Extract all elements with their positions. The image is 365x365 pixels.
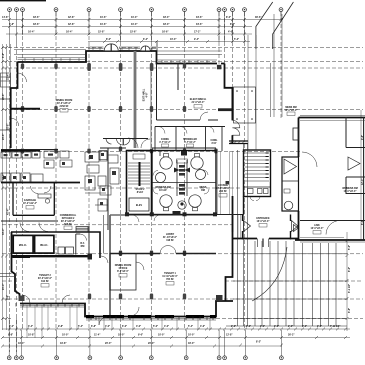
deck horizontal joints solid	[233, 254, 347, 319]
bottom wall piers	[86, 315, 216, 318]
columns row1 y66	[21, 63, 186, 71]
svg-text:4'-0": 4'-0"	[136, 325, 141, 328]
door arc elect room	[200, 112, 208, 120]
svg-text:5'-4": 5'-4"	[188, 325, 193, 328]
svg-text:2158 SF: 2158 SF	[59, 105, 69, 108]
svg-text:41'-4": 41'-4"	[7, 209, 10, 216]
kitchen island rects center	[85, 152, 119, 190]
svg-text:19'-8": 19'-8"	[60, 342, 67, 345]
corridor wall below garbage	[1, 220, 58, 222]
svg-text:W.I.C.: W.I.C.	[19, 243, 27, 247]
svg-text:10'-0": 10'-0"	[118, 334, 125, 337]
kitchen: west equipment band2	[1, 173, 43, 182]
room label: EXIT HALL	[143, 88, 149, 101]
svg-text:21'-4": 21'-4"	[2, 284, 5, 291]
corner column box top-right	[217, 65, 222, 70]
labels above core: COMM SPRINKLER	[159, 138, 218, 145]
room label: DINING ROOM OFFICE	[110, 254, 136, 291]
dark column at lobby wall	[88, 254, 93, 260]
core: restroom block outline	[152, 151, 216, 215]
svg-text:2'-6": 2'-6"	[317, 325, 322, 328]
link band hatched wall	[229, 141, 248, 144]
lounge deck lines	[217, 151, 240, 239]
top edge border remnant	[0, 0, 46, 1]
bottom dimension lines	[2, 329, 350, 346]
tenant1 interior door arcs	[136, 262, 144, 270]
kitchen walls	[107, 148, 109, 230]
kitchen band wall top	[1, 149, 58, 151]
svg-text:16'-6": 16'-6"	[162, 31, 169, 34]
svg-text:15'-6": 15'-6"	[130, 31, 137, 34]
svg-text:2'-6": 2'-6"	[302, 325, 307, 328]
toilet stems	[164, 154, 200, 211]
columns row4 y256 (outlined)	[119, 251, 186, 257]
entrance side walls	[243, 215, 291, 240]
svg-text:10'-0": 10'-0"	[158, 334, 165, 337]
deck bottom edge	[226, 325, 347, 327]
stair top landing box	[133, 154, 145, 159]
svg-text:6'-8": 6'-8"	[91, 325, 96, 328]
svg-text:8'-2": 8'-2"	[256, 341, 261, 344]
svg-text:8'-0": 8'-0"	[230, 23, 235, 26]
wall: left exterior upper	[11, 62, 18, 148]
svg-text:8'-0"x8'-0": 8'-0"x8'-0"	[117, 270, 129, 273]
svg-text:418 SF: 418 SF	[166, 239, 174, 242]
canopy lines upper right	[248, 14, 282, 150]
wing door leaf arrow right	[348, 157, 360, 170]
lounge stair walls	[244, 150, 271, 197]
grid lines horizontal dashed	[2, 48, 363, 319]
room label: TENANT 2	[38, 274, 52, 283]
svg-text:2'-6": 2'-6"	[288, 325, 293, 328]
svg-text:12'-8": 12'-8"	[226, 334, 233, 337]
svg-text:5'-2": 5'-2"	[234, 38, 239, 41]
svg-text:16'-0"x8'-0": 16'-0"x8'-0"	[257, 220, 270, 223]
label womens rm in wing	[342, 187, 357, 193]
B.F. room	[76, 226, 89, 255]
wing WC fixtures	[284, 201, 293, 210]
svg-text:4'-0": 4'-0"	[105, 325, 110, 328]
wall: top dining exterior	[18, 51, 225, 64]
svg-text:9'-8": 9'-8"	[8, 334, 13, 337]
urinal stack center	[179, 165, 185, 195]
svg-text:20'-8": 20'-8"	[2, 134, 5, 141]
toilets: lavatory circles	[156, 157, 206, 207]
left margin small structures upper	[1, 73, 11, 87]
svg-text:2'-6": 2'-6"	[246, 325, 251, 328]
bike rack fixtures below stair	[248, 189, 269, 194]
svg-text:15'-8": 15'-8"	[98, 31, 105, 34]
svg-text:10'-0": 10'-0"	[62, 334, 69, 337]
corridor rooms walls (COMM/SPRINKLER/COML)	[155, 127, 225, 152]
svg-text:17'-2": 17'-2"	[194, 31, 201, 34]
svg-text:18'-0": 18'-0"	[2, 174, 5, 181]
svg-text:6'-8": 6'-8"	[2, 53, 5, 58]
svg-text:18'-0": 18'-0"	[188, 342, 195, 345]
svg-text:4'-0": 4'-0"	[9, 325, 14, 328]
kitchen: hood line	[1, 150, 40, 152]
svg-text:6'-0": 6'-0"	[122, 325, 127, 328]
svg-text:32'-8": 32'-8"	[68, 23, 75, 26]
svg-text:290 SF: 290 SF	[219, 190, 227, 193]
bottom dimension ticks row2	[1, 336, 347, 339]
svg-text:33'-0": 33'-0"	[163, 16, 170, 19]
wall: elect/mech room (center top)	[157, 64, 219, 121]
columns row2 y109	[21, 106, 186, 112]
lounge column marker	[226, 181, 230, 185]
left dimension ticks	[1, 46, 8, 320]
svg-text:9'-4": 9'-4"	[194, 38, 199, 41]
canopy rect right of east wall	[234, 87, 256, 123]
top dimension lines	[2, 20, 283, 42]
svg-text:6'-1 1/2": 6'-1 1/2"	[348, 284, 351, 293]
kitchen: west equipment band1	[1, 151, 69, 158]
svg-text:16'-4": 16'-4"	[66, 31, 73, 34]
garbage interior door arcs	[31, 186, 39, 194]
svg-text:33'-4": 33'-4"	[2, 229, 5, 236]
svg-text:9'-0": 9'-0"	[138, 334, 143, 337]
svg-text:4'-6": 4'-6"	[200, 325, 205, 328]
svg-text:9'-8": 9'-8"	[361, 135, 364, 140]
svg-text:8'-0": 8'-0"	[361, 220, 364, 225]
room label: COMMERCIAL KITCHEN	[60, 214, 77, 226]
WIC cooler 2	[35, 235, 54, 253]
svg-text:10'-0"x8'-0": 10'-0"x8'-0"	[311, 227, 324, 230]
svg-text:5'-0": 5'-0"	[153, 325, 158, 328]
restroom center dark fittings	[181, 151, 187, 156]
window mullion ticks top dining wall	[25, 47, 207, 64]
door arcs east wall (double, swing east)	[232, 120, 239, 135]
west porch partitions	[0, 99, 11, 130]
svg-text:4'-0": 4'-0"	[228, 31, 233, 34]
canopy lines above dining wall	[14, 50, 222, 55]
svg-text:2'-6": 2'-6"	[260, 325, 265, 328]
svg-text:9'-8": 9'-8"	[7, 295, 10, 300]
garbage equipment	[38, 194, 51, 203]
svg-text:20'-8": 20'-8"	[2, 94, 5, 101]
wing door arcs	[302, 152, 317, 167]
svg-text:16'-0"x8'-0": 16'-0"x8'-0"	[344, 190, 357, 193]
top dimension texts	[2, 16, 262, 41]
svg-text:6'-8": 6'-8"	[348, 308, 351, 313]
svg-text:12'-4": 12'-4"	[361, 179, 364, 186]
entrance bottom wall	[233, 238, 299, 240]
svg-text:31'-4": 31'-4"	[7, 74, 10, 81]
elev room below stair	[129, 198, 149, 211]
protrusion door arrow	[284, 159, 297, 174]
svg-text:W.I.C.: W.I.C.	[40, 243, 48, 247]
wing west bay bump	[293, 128, 299, 140]
stair tread end ticks	[266, 153, 269, 178]
svg-text:8'-0": 8'-0"	[106, 38, 111, 41]
corridor door arc to lobby	[101, 256, 108, 263]
svg-text:20'-8": 20'-8"	[7, 124, 10, 131]
right wing outer walls	[299, 117, 365, 119]
svg-text:812 SF: 812 SF	[41, 280, 49, 283]
svg-text:9'-8": 9'-8"	[58, 325, 63, 328]
restroom labels	[155, 186, 207, 192]
core bottom corridor wall y215	[110, 214, 216, 216]
right dimension line (deck)	[346, 232, 348, 331]
restroom interior walls	[152, 150, 216, 196]
wheelchair symbol	[178, 201, 186, 209]
svg-text:3'x5': 3'x5'	[211, 142, 217, 145]
bottom grid bubbles	[7, 356, 283, 360]
bottom wall windows (below y316)	[20, 306, 216, 321]
corridor room door arcs	[158, 127, 214, 134]
lobby door arcs	[160, 246, 168, 254]
svg-text:31'-6": 31'-6"	[100, 16, 107, 19]
svg-text:34'-6": 34'-6"	[196, 16, 203, 19]
wall: tenant2 top y232	[11, 232, 100, 258]
columns row5 y296	[88, 294, 186, 300]
room label: GARBAGE	[23, 199, 37, 205]
wing east edge cut line	[363, 117, 365, 240]
tenant1 door arc bottom	[130, 307, 139, 316]
svg-text:4'-6": 4'-6"	[146, 92, 149, 97]
svg-text:598 SF: 598 SF	[64, 223, 72, 226]
left margin rotated dimension texts	[2, 53, 10, 300]
svg-text:32'-8": 32'-8"	[68, 16, 75, 19]
svg-text:19'-4": 19'-4"	[18, 342, 25, 345]
svg-text:2'-6": 2'-6"	[231, 325, 236, 328]
room label: TENANT 1	[162, 272, 178, 281]
tenant2 storefront bar	[13, 256, 31, 258]
room label: LINK	[311, 224, 324, 230]
garbage room walls	[13, 183, 54, 215]
columns row3 y151	[21, 147, 218, 154]
wing interior walls	[300, 117, 365, 221]
section cut diagonal top right	[256, 2, 294, 49]
stair landing wall	[244, 186, 270, 188]
bottom dimension ticks row1	[8, 328, 347, 331]
door arc bottom entry	[99, 317, 107, 325]
svg-text:11'-4": 11'-4"	[94, 334, 100, 337]
equipment left of BF room	[58, 247, 74, 254]
wing window inner lines	[300, 120, 365, 237]
wall: exit hall vertical (gray)	[134, 51, 137, 148]
svg-text:31'-6": 31'-6"	[100, 23, 107, 26]
west wall door arc to porch	[18, 73, 27, 82]
svg-text:8'x19': 8'x19'	[137, 191, 144, 194]
svg-text:21'-0"x8'-0": 21'-0"x8'-0"	[192, 101, 205, 104]
svg-text:8'-0": 8'-0"	[226, 16, 231, 19]
room label: DINING ROOM	[56, 99, 72, 108]
svg-text:10'-8": 10'-8"	[28, 334, 35, 337]
svg-text:33'-0": 33'-0"	[163, 23, 170, 26]
tenant2 north storefront dark band	[11, 255, 88, 257]
svg-text:4'-7"x5'-2": 4'-7"x5'-2"	[159, 141, 171, 144]
right wing dimension string	[360, 110, 362, 240]
wall: lobby/tenant separation x110	[109, 215, 111, 316]
svg-text:RM: RM	[201, 189, 205, 192]
exit hall wall y138.5	[103, 138, 148, 140]
svg-text:5'-0": 5'-0"	[348, 245, 351, 250]
bottom bubble leaders	[9, 318, 281, 356]
svg-text:33'-6": 33'-6"	[33, 16, 40, 19]
room label: ELECT MECH	[190, 98, 207, 104]
svg-text:14'-8": 14'-8"	[2, 16, 9, 19]
svg-text:36'-6": 36'-6"	[255, 16, 262, 19]
deck vertical lines	[238, 143, 337, 326]
room label: LOUNGE	[216, 184, 230, 193]
svg-text:ELEV: ELEV	[136, 204, 143, 207]
svg-text:3'-4": 3'-4"	[28, 325, 33, 328]
svg-text:30'-2": 30'-2"	[288, 334, 295, 337]
tenant2 bottom door arc	[22, 295, 30, 303]
svg-text:7'-11 1/2": 7'-11 1/2"	[330, 325, 340, 328]
wall: corridor at y148	[100, 147, 216, 149]
grid lines vertical dashed	[10, 12, 282, 352]
kitchen extra clutter	[44, 151, 111, 212]
link door bowtie left	[294, 225, 299, 232]
tenant2 west porch lines	[0, 274, 15, 277]
svg-text:20'-0": 20'-0"	[105, 342, 112, 345]
svg-text:34'-6": 34'-6"	[196, 23, 203, 26]
label mens rm above wing	[285, 106, 298, 112]
svg-text:RM: RM	[81, 245, 85, 248]
svg-text:31'-0": 31'-0"	[131, 16, 138, 19]
svg-text:5'-4": 5'-4"	[78, 325, 83, 328]
svg-text:33'-6": 33'-6"	[33, 23, 40, 26]
bottom dimension ticks row3	[1, 344, 283, 348]
lounge stair treads	[245, 153, 269, 181]
wall: east wall below door	[231, 135, 233, 143]
svg-text:16'-0"x8'-0": 16'-0"x8'-0"	[285, 109, 298, 112]
stair label	[136, 188, 146, 194]
entrance door leaves swinging out	[258, 239, 269, 248]
bottom wall window mullion ticks	[16, 303, 213, 320]
wall: lobby south y256 with doors	[110, 253, 216, 255]
wall: tenant1 east side	[226, 196, 233, 301]
lounge south wall	[243, 197, 245, 215]
stair treads	[128, 163, 150, 184]
svg-text:10'-2"x12'-4": 10'-2"x12'-4"	[23, 202, 37, 205]
door arcs corridor	[128, 138, 138, 148]
WIC cooler 1	[13, 235, 33, 253]
counter 4200 box	[177, 159, 188, 163]
svg-text:4'-7"x5'-2": 4'-7"x5'-2"	[184, 141, 196, 144]
wall: dining window lines above	[18, 47, 218, 60]
striped counter above BF room	[76, 227, 88, 232]
bottom dimension texts	[8, 325, 340, 345]
svg-text:10'x10': 10'x10'	[159, 189, 167, 192]
corner column box bottom deck	[216, 295, 223, 301]
top grid bubbles	[8, 8, 283, 12]
stair center rail	[139, 162, 141, 186]
svg-text:10'-0": 10'-0"	[188, 334, 195, 337]
top dimension ticks	[8, 18, 283, 43]
svg-text:2'-6": 2'-6"	[274, 325, 279, 328]
dining low wall at y109	[11, 108, 40, 110]
door arcs: second entry top	[140, 45, 151, 51]
room label: ENTRANCE	[256, 217, 270, 223]
entrance bowtie door right	[292, 221, 298, 232]
wall: left exterior lower	[12, 232, 234, 317]
exit hall double doors	[117, 139, 131, 146]
left dimension lines	[3, 44, 11, 330]
svg-text:6'-2": 6'-2"	[143, 38, 148, 41]
core: stair2 block	[127, 151, 152, 215]
tenant2 sw corner column	[19, 296, 25, 302]
stall partition arcs	[153, 170, 209, 194]
svg-text:10'-0": 10'-0"	[170, 38, 177, 41]
svg-text:784 SF: 784 SF	[166, 278, 174, 281]
elect south dark bar	[218, 108, 232, 111]
entrance band walls	[232, 215, 234, 232]
door arcs: main entry double door top	[104, 43, 120, 51]
deck big door swing arc	[252, 247, 287, 301]
svg-text:6'-8": 6'-8"	[9, 23, 14, 26]
svg-text:8'-6": 8'-6"	[348, 267, 351, 272]
top bubble leader lines	[10, 11, 282, 44]
entrance bowtie door left	[244, 221, 251, 232]
wall: right side upper (east wall of main bldg)	[225, 64, 233, 121]
wing left protrusion rooms	[282, 157, 299, 211]
wing window lines	[300, 116, 365, 243]
svg-text:16'-4": 16'-4"	[28, 31, 35, 34]
room label: LOBBY	[163, 233, 177, 242]
bottom extension drop lines	[27, 305, 210, 338]
svg-text:4'-0": 4'-0"	[164, 325, 169, 328]
svg-text:31'-0": 31'-0"	[131, 23, 138, 26]
cooler door arcs	[20, 223, 29, 232]
